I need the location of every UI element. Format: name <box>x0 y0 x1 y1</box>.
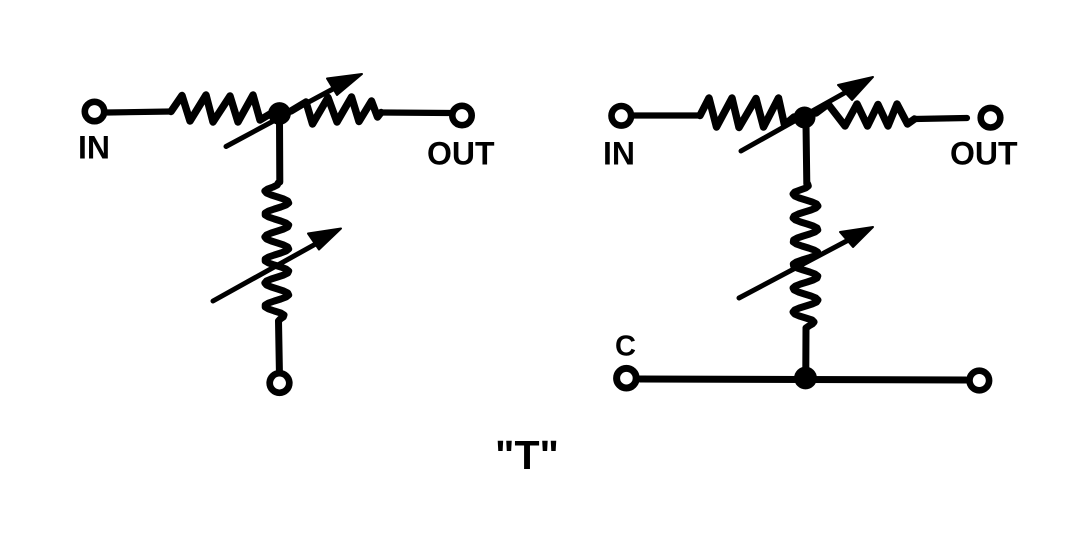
svg-text:IN: IN <box>603 136 635 172</box>
svg-text:C: C <box>615 331 636 363</box>
svg-text:OUT: OUT <box>427 136 495 172</box>
svg-text:OUT: OUT <box>950 136 1018 172</box>
svg-text:"T": "T" <box>495 432 559 478</box>
svg-text:IN: IN <box>78 130 110 166</box>
